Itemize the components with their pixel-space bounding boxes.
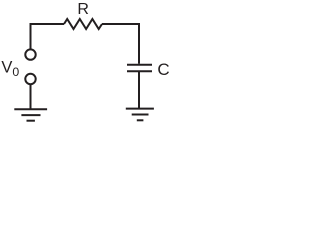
svg-text:R: R	[77, 1, 89, 18]
svg-text:C: C	[157, 60, 169, 79]
svg-text:V: V	[1, 59, 12, 77]
svg-text:0: 0	[12, 65, 19, 79]
